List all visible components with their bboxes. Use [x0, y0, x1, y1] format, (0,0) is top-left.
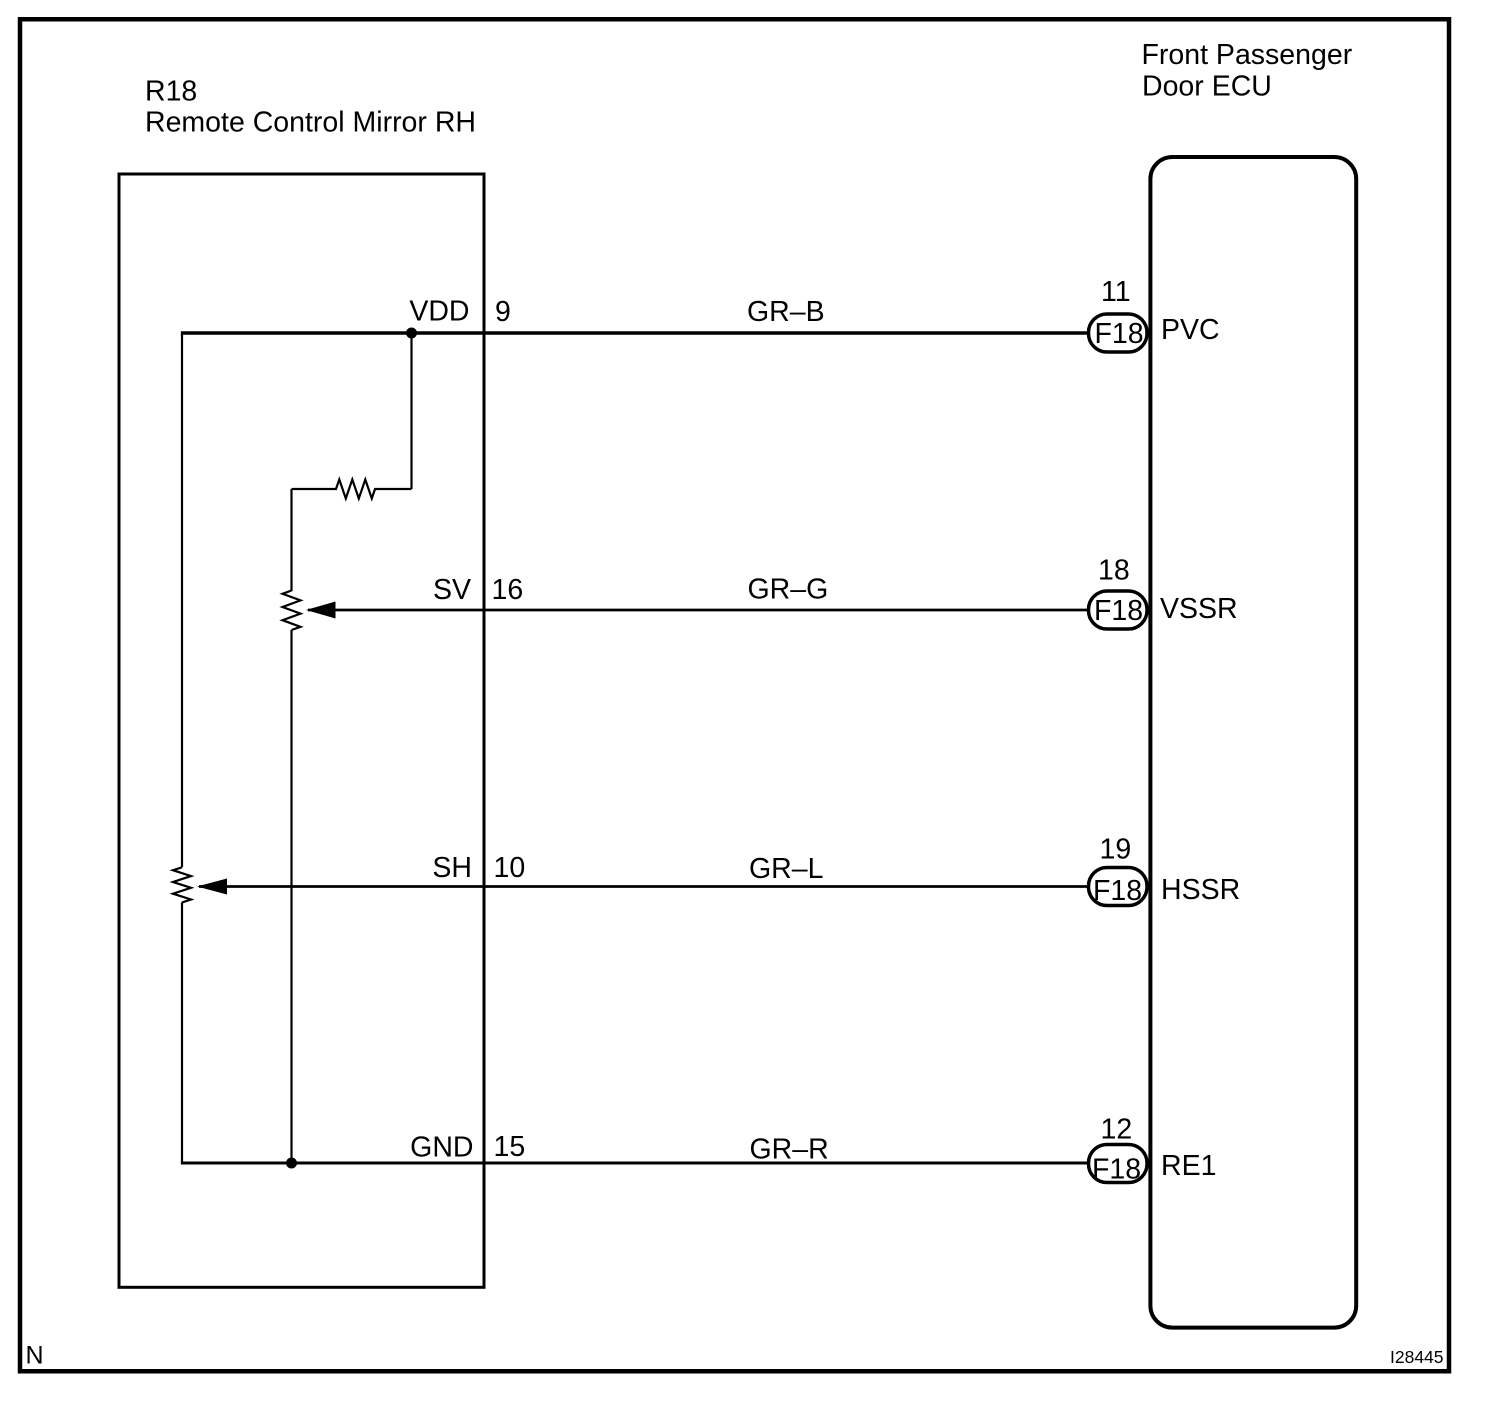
svg-text:SH: SH: [432, 852, 472, 884]
resistor R (series, horizontal): [292, 480, 412, 499]
svg-text:I28445: I28445: [1390, 1347, 1444, 1367]
svg-text:GND: GND: [410, 1132, 473, 1164]
wire from SV potentiometer down to GND junction: [290, 630, 292, 1163]
svg-text:18: 18: [1098, 555, 1130, 587]
connector F18 pin 18 (VSSR): [1089, 591, 1148, 629]
svg-text:12: 12: [1101, 1114, 1133, 1146]
wire VDD net GR-B from R18 pin 9 to ECU pin 11: [181, 331, 1088, 335]
potentiometer SV (vertical zigzag): [283, 591, 301, 631]
wire from SH potentiometer down to GND wire: [181, 902, 183, 1163]
component R18 Remote Control Mirror RH (box): [119, 174, 484, 1287]
ECU U1 Front Passenger Door ECU (box): [1150, 157, 1356, 1328]
wire GND net GR-R from R18 pin 15 to ECU pin 12: [181, 1162, 1088, 1165]
svg-text:F18: F18: [1093, 875, 1142, 907]
svg-text:HSSR: HSSR: [1161, 874, 1240, 906]
svg-text:11: 11: [1101, 276, 1131, 308]
svg-text:F18: F18: [1092, 1154, 1141, 1186]
svg-text:GR–G: GR–G: [748, 574, 829, 606]
wire left vertical from VDD to SH potentiometer: [181, 333, 183, 867]
svg-text:Remote Control Mirror RH: Remote Control Mirror RH: [145, 107, 476, 139]
svg-text:VDD: VDD: [409, 296, 469, 328]
junction dot VDD node: [406, 328, 417, 339]
svg-text:F18: F18: [1094, 318, 1143, 350]
wire VDD branch down to resistor: [410, 333, 412, 489]
wire SV net GR-G from ECU pin 18 to wiper: [308, 609, 1088, 612]
svg-text:GR–L: GR–L: [749, 853, 823, 885]
svg-text:15: 15: [494, 1131, 526, 1163]
wire from resistor down to SV potentiometer: [290, 489, 292, 591]
svg-text:PVC: PVC: [1161, 314, 1220, 346]
svg-text:VSSR: VSSR: [1160, 593, 1238, 625]
svg-text:R18: R18: [145, 76, 197, 108]
svg-text:GR–R: GR–R: [750, 1134, 829, 1166]
svg-text:F18: F18: [1094, 595, 1143, 627]
connector F18 pin 11 (PVC): [1089, 314, 1148, 352]
svg-text:10: 10: [494, 852, 526, 884]
junction dot GND node: [286, 1158, 297, 1169]
potentiometer SH (vertical zigzag): [173, 867, 191, 902]
svg-text:Door ECU: Door ECU: [1142, 71, 1272, 103]
svg-text:19: 19: [1100, 834, 1132, 866]
svg-text:GR–B: GR–B: [747, 296, 825, 328]
connector F18 pin 12 (RE1): [1089, 1145, 1148, 1183]
svg-text:SV: SV: [433, 574, 471, 606]
svg-text:RE1: RE1: [1161, 1150, 1216, 1182]
svg-text:9: 9: [495, 296, 511, 328]
svg-text:N: N: [26, 1342, 44, 1370]
wire SH net GR-L from ECU pin 19 to wiper: [199, 885, 1088, 888]
svg-text:16: 16: [492, 574, 524, 606]
connector F18 pin 19 (HSSR): [1089, 868, 1148, 906]
svg-text:Front Passenger: Front Passenger: [1142, 39, 1353, 71]
wiper arrow SV: [306, 602, 336, 619]
wiper arrow SH: [197, 879, 227, 895]
